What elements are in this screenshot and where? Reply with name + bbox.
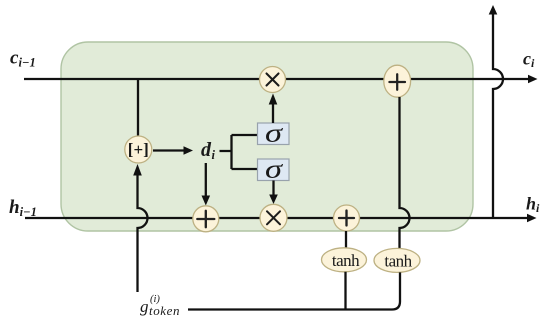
svg-text:hi: hi xyxy=(526,194,540,216)
node tanh1 (left ellipse) xyxy=(322,248,367,272)
wire add(c) down to tanh2 (hops over h-line) xyxy=(400,97,410,249)
wire g_token up to concat (hops over h-line) xyxy=(138,174,148,292)
wire c-line to concat xyxy=(137,79,139,137)
svg-text:token: token xyxy=(149,303,180,318)
arrowhead h-line xyxy=(527,214,537,223)
node concat [+] xyxy=(125,136,152,163)
wire d_i to sigma bracket xyxy=(220,135,258,169)
wire h-line (hidden state) xyxy=(25,217,528,219)
svg-text:σ: σ xyxy=(265,155,284,184)
wire concat to d_i (arrow) xyxy=(153,149,185,151)
svg-text:ci: ci xyxy=(523,49,535,71)
wire tanh2 down and g-line to g_token xyxy=(188,272,400,309)
arrowhead output-up xyxy=(489,5,498,15)
node mult on c-line (x) xyxy=(260,67,286,93)
wire c-line (cell state) xyxy=(24,78,529,80)
svg-text:tanh: tanh xyxy=(332,251,360,270)
wire d_i down to add on h-line (arrow) xyxy=(205,163,207,197)
svg-text:hi−1: hi−1 xyxy=(9,197,37,219)
node tanh2 (right ellipse) xyxy=(374,248,420,272)
wire sigma2 down to mult on h-line (arrow) xyxy=(272,181,274,197)
arrowhead into concat xyxy=(133,164,142,176)
svg-text:ci−1: ci−1 xyxy=(10,48,36,70)
cell body (green rounded box) xyxy=(61,42,473,231)
node add3 on h-line (+) xyxy=(334,205,360,231)
svg-text:g: g xyxy=(140,297,149,316)
svg-text:σ: σ xyxy=(265,119,284,148)
node add2 on h-line (+) xyxy=(193,206,219,232)
svg-text:tanh: tanh xyxy=(384,252,412,271)
wire sigma1 up to mult on c-line (arrow) xyxy=(272,103,274,123)
svg-text:[+]: [+] xyxy=(128,140,149,159)
node mult on h-line (x) xyxy=(260,204,287,231)
wire output-up (hops over c-line) xyxy=(493,13,503,218)
block sigma2 (bottom) xyxy=(258,159,290,181)
block sigma1 (top) xyxy=(258,123,290,145)
node add on c-line (+) xyxy=(384,65,411,97)
wire tanh1 down to g-line xyxy=(344,272,346,310)
wire add3 down to tanh1 xyxy=(345,231,347,248)
arrowhead c-line xyxy=(528,75,538,84)
